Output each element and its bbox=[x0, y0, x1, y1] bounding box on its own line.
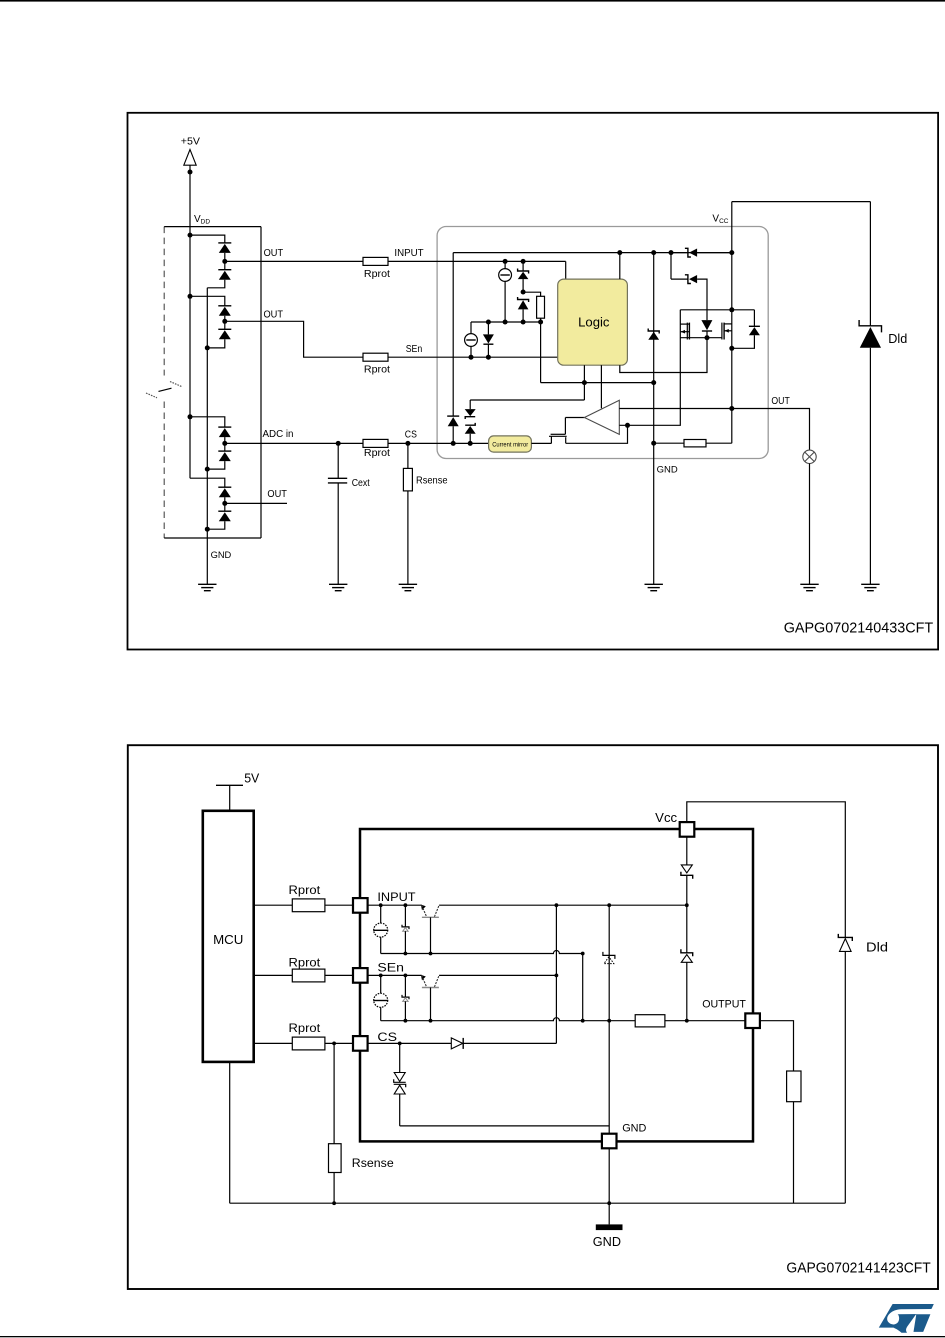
node input vcc clamp bbox=[685, 903, 689, 907]
node stack2 return bbox=[205, 345, 210, 350]
node gnd mid bbox=[651, 441, 656, 446]
figure 1 frame bbox=[128, 113, 939, 650]
wire 5V to MCU bbox=[229, 785, 231, 811]
node stack1 bbox=[188, 233, 193, 238]
zener z-sen bbox=[402, 975, 409, 1020]
svg-text:Rsense: Rsense bbox=[352, 1156, 394, 1170]
node rail zener branch bbox=[669, 250, 674, 255]
wire OUT4 stub bbox=[225, 502, 287, 504]
resistor Rprot row1 bbox=[363, 257, 388, 265]
page top rule bbox=[0, 0, 945, 2]
node input b bbox=[521, 259, 526, 264]
node D10 sen bbox=[486, 355, 491, 360]
svg-text:Cext: Cext bbox=[352, 478, 370, 489]
supply +5V arrow bbox=[184, 150, 196, 166]
zener ZR2 bbox=[671, 253, 707, 321]
MCU block fig2 bbox=[203, 811, 254, 1062]
ground symbol ic bbox=[645, 584, 663, 590]
svg-text:+5V: +5V bbox=[181, 136, 200, 147]
svg-text:Rprot: Rprot bbox=[364, 448, 390, 459]
svg-text:5V: 5V bbox=[244, 771, 260, 785]
wire CS into IC bbox=[388, 442, 489, 444]
input group bottom wire bbox=[471, 321, 541, 323]
wire to diode stack 3 bbox=[190, 417, 225, 427]
Vcc top wire bbox=[732, 201, 871, 203]
comparator A1 bbox=[584, 400, 619, 434]
svg-text:OUT: OUT bbox=[264, 309, 284, 320]
svg-text:GAPG0702140433CFT: GAPG0702140433CFT bbox=[784, 620, 934, 636]
svg-text:ADC in: ADC in bbox=[263, 429, 294, 440]
node Z1 bottom bbox=[521, 290, 526, 295]
wire OUTPUT external bbox=[760, 1021, 794, 1071]
tvs gnd wire bbox=[400, 1125, 610, 1127]
Vcc vertical bus bbox=[731, 202, 733, 444]
mosfet M1 bbox=[680, 323, 689, 340]
IC2 body bbox=[360, 829, 753, 1141]
node mid gnd bbox=[651, 380, 656, 385]
node stack4 return bbox=[205, 527, 210, 532]
current source I4 bbox=[373, 975, 388, 1020]
node stack2 bbox=[188, 294, 193, 299]
wire MCU to Rprot2 bbox=[255, 974, 292, 976]
node stack3 bbox=[188, 414, 193, 419]
resistor R5 bbox=[654, 440, 732, 447]
wire tvs drop bbox=[469, 400, 471, 409]
MCU block dashed left edge bbox=[163, 227, 165, 538]
pin square OUTPUT bbox=[745, 1013, 760, 1028]
node tvs cs bbox=[468, 441, 473, 446]
svg-text:OUT: OUT bbox=[267, 489, 287, 500]
node Cext junction bbox=[336, 441, 341, 446]
wire SEn into IC bbox=[388, 356, 558, 358]
SEn wire cont bbox=[439, 974, 556, 976]
svg-text:MCU: MCU bbox=[213, 932, 243, 947]
svg-text:CS: CS bbox=[377, 1030, 397, 1044]
diode D10 bbox=[483, 322, 494, 357]
Logic block bbox=[558, 279, 628, 365]
wire MCU to Rprot1 bbox=[255, 904, 292, 906]
svg-text:SEn: SEn bbox=[377, 960, 404, 974]
INPUT pin wire bbox=[367, 904, 422, 906]
node Rsense tap bbox=[332, 1042, 336, 1046]
svg-text:Logic: Logic bbox=[578, 315, 610, 330]
Vdd rail vertical bbox=[189, 227, 191, 479]
node r2b bbox=[429, 1019, 433, 1023]
wire logic out1 bbox=[583, 365, 585, 400]
node cs tvs bbox=[398, 1042, 402, 1046]
resistor Rprot row3 bbox=[363, 439, 388, 447]
node r2c bbox=[581, 1019, 585, 1023]
svg-text:Rprot: Rprot bbox=[289, 955, 321, 969]
OUT feedback wire bbox=[619, 409, 809, 451]
node se1 bbox=[379, 974, 383, 978]
node in3 bbox=[555, 903, 559, 907]
zener ZR1 bbox=[671, 248, 732, 257]
wire OUT1 to Rprot bbox=[225, 260, 363, 262]
node r2a bbox=[404, 1019, 408, 1023]
wire R4 branch down bbox=[540, 322, 542, 383]
svg-text:INPUT: INPUT bbox=[377, 890, 416, 904]
GND pin lower wire bbox=[608, 1148, 610, 1224]
pin square Vcc bbox=[680, 822, 695, 837]
left rail drop bbox=[452, 253, 454, 417]
svg-text:Dld: Dld bbox=[866, 940, 888, 955]
wire +5V to Vdd bbox=[189, 165, 191, 226]
wire R4 bottom bbox=[540, 318, 542, 322]
svg-text:Rprot: Rprot bbox=[289, 1021, 321, 1035]
node on +5V wire bbox=[188, 170, 193, 175]
figure 2 frame bbox=[128, 745, 938, 1289]
node stack3 return bbox=[205, 467, 210, 472]
diode D11 down bbox=[701, 320, 712, 338]
node OUT4 bbox=[222, 501, 227, 506]
diode D9 bbox=[447, 416, 459, 443]
zener clamp vcc-b bbox=[681, 905, 693, 1021]
node r1b bbox=[429, 952, 433, 956]
node rail gnd branch bbox=[651, 250, 656, 255]
page bottom rule bbox=[0, 1336, 945, 1337]
wire MCU to Rprot3 bbox=[255, 1042, 292, 1044]
current source I2 bbox=[465, 322, 478, 357]
resistor Rprot2-1 bbox=[292, 899, 325, 912]
INPUT wire cont bbox=[439, 904, 687, 906]
node out line bbox=[729, 406, 734, 411]
row1 bottom wire with hop bbox=[381, 951, 583, 954]
resistor Rload bbox=[787, 1071, 801, 1102]
current source I3 bbox=[373, 905, 388, 953]
pin square CS bbox=[353, 1036, 368, 1051]
svg-text:Rprot: Rprot bbox=[364, 365, 390, 376]
node drain vcc bbox=[729, 307, 734, 312]
resistor R4 bbox=[537, 296, 545, 318]
wire Rprot1 to pin bbox=[325, 904, 353, 906]
svg-text:Rprot: Rprot bbox=[289, 883, 321, 897]
node Rsense junction bbox=[405, 441, 410, 446]
node r2d bbox=[607, 1019, 611, 1023]
node comp in2 bbox=[625, 423, 630, 428]
ground return wire bbox=[206, 288, 208, 585]
ground symbol mcu bbox=[198, 584, 216, 590]
sense tie vertical bbox=[555, 905, 557, 1043]
svg-text:Rprot: Rprot bbox=[364, 269, 390, 280]
wire Rload down bbox=[793, 1102, 795, 1204]
node input a bbox=[503, 259, 508, 264]
svg-text:GND: GND bbox=[211, 550, 232, 560]
Vcc pin top wire bbox=[687, 802, 846, 938]
node source vcc bbox=[729, 346, 734, 351]
pin square INPUT bbox=[353, 898, 368, 913]
node bw3 bbox=[521, 320, 526, 325]
resistor Rsense fig1 bbox=[403, 443, 412, 584]
node bw2 bbox=[503, 320, 508, 325]
node in4 bbox=[607, 903, 611, 907]
wire mirror to fet bbox=[531, 442, 551, 444]
node OUT2 bbox=[222, 319, 227, 324]
zener z-gnd bbox=[603, 952, 615, 964]
svg-text:SEn: SEn bbox=[406, 344, 423, 355]
MCU block top edge bbox=[164, 226, 261, 228]
node bw1 bbox=[486, 320, 491, 325]
node rsense gnd bbox=[332, 1201, 336, 1205]
node r1c bbox=[581, 952, 585, 956]
MCU ground drop bbox=[229, 1062, 231, 1203]
node gnd bus bbox=[607, 1201, 611, 1205]
earth bar bbox=[596, 1224, 623, 1230]
node r1a bbox=[404, 952, 408, 956]
node D11 source bbox=[705, 335, 710, 340]
wire logic out3 bbox=[620, 338, 707, 373]
ground symbol Dld bbox=[861, 584, 879, 590]
mosfet M2 bbox=[722, 323, 732, 340]
drain rail bbox=[680, 309, 754, 311]
diode D5 bbox=[218, 427, 231, 451]
resistor Rprot row2 bbox=[363, 353, 388, 361]
node se2 bbox=[404, 974, 408, 978]
source rail bbox=[680, 337, 722, 339]
lamp load bbox=[803, 450, 816, 584]
svg-text:GND: GND bbox=[657, 465, 678, 475]
svg-text:GAPG0702141423CFT: GAPG0702141423CFT bbox=[786, 1260, 930, 1276]
diode D8 bbox=[207, 511, 231, 529]
diode D12 bbox=[732, 310, 760, 349]
transistor T1 bbox=[421, 905, 439, 954]
bottom ground bus bbox=[230, 1202, 846, 1204]
tvs clamp cs bbox=[394, 1043, 406, 1126]
resistor Rprot2-3 bbox=[292, 1037, 325, 1050]
wire rail to logic bbox=[619, 253, 621, 280]
IC U1 body bbox=[437, 227, 768, 459]
diode D7 bbox=[218, 487, 231, 511]
ground symbol Cext bbox=[329, 584, 347, 590]
wire Z1 to R4 bbox=[523, 292, 541, 296]
MCU block right edge bbox=[260, 227, 262, 538]
ST logo bbox=[879, 1304, 934, 1333]
row2 bottom wire with hop bbox=[381, 1018, 636, 1021]
node OUT1 bbox=[222, 259, 227, 264]
zener Z3 gnd branch bbox=[648, 253, 659, 585]
node I2 sen bbox=[469, 355, 474, 360]
break mark on dashed edge bbox=[146, 382, 182, 398]
internal gnd bus bbox=[608, 905, 610, 1134]
node D9 cs bbox=[451, 441, 456, 446]
node sen tie bbox=[555, 974, 559, 978]
resistor Rprot2-2 bbox=[292, 969, 325, 982]
diode D4 bbox=[207, 329, 231, 348]
resistor Rout bbox=[635, 1015, 665, 1027]
svg-text:Rsense: Rsense bbox=[416, 476, 448, 487]
wire to diode stack 1 bbox=[190, 235, 225, 243]
zener clamp vcc-a bbox=[681, 836, 693, 905]
wire input to logic bbox=[565, 261, 567, 279]
svg-text:OUT: OUT bbox=[264, 248, 284, 259]
wire to diode stack 4 bbox=[190, 478, 225, 487]
resistor Rsense fig2 bbox=[329, 1043, 342, 1203]
diode D3 bbox=[218, 306, 231, 330]
node in2 bbox=[404, 903, 408, 907]
svg-text:OUT: OUT bbox=[771, 396, 789, 407]
tie wire rows bbox=[582, 954, 584, 1021]
node ADC bbox=[222, 441, 227, 446]
diode D2 bbox=[207, 270, 231, 288]
ground symbol lamp bbox=[800, 584, 818, 590]
node rail logic bbox=[617, 250, 622, 255]
zener z-in bbox=[402, 905, 409, 953]
zener Z2 bbox=[518, 297, 529, 322]
zener Z1 bbox=[518, 261, 529, 292]
wire fet to comp2 bbox=[566, 425, 628, 443]
svg-text:GND: GND bbox=[593, 1234, 621, 1249]
CS pin wire bbox=[367, 1042, 452, 1044]
node in1 bbox=[379, 903, 383, 907]
node output clamp bbox=[685, 1019, 689, 1023]
svg-text:GND: GND bbox=[622, 1123, 646, 1135]
wire D13 to tie bbox=[463, 1042, 556, 1044]
comparator input2 wire bbox=[619, 310, 680, 426]
svg-text:OUTPUT: OUTPUT bbox=[702, 999, 746, 1011]
MCU block bottom edge bbox=[164, 537, 261, 539]
ground symbol Rsense bbox=[399, 584, 417, 590]
svg-text:CS: CS bbox=[405, 429, 417, 440]
svg-text:Current mirror: Current mirror bbox=[492, 442, 528, 448]
wire tvs top bbox=[470, 399, 584, 401]
capacitor Cext bbox=[328, 443, 347, 584]
pin square GND bbox=[602, 1134, 617, 1149]
diode D6 bbox=[207, 451, 231, 469]
wire logic out2 bbox=[600, 365, 602, 408]
mid horizontal wire bbox=[541, 382, 654, 384]
sense fet Q1 bbox=[549, 418, 567, 444]
supply 5V bar bbox=[216, 784, 243, 786]
comparator output wire bbox=[565, 417, 584, 419]
diode D1 bbox=[218, 243, 231, 270]
node rail vcc pin bbox=[729, 250, 734, 255]
wire OUT2 bbox=[225, 321, 363, 357]
internal Vcc rail bbox=[453, 252, 732, 254]
zener Dld fig2 bbox=[838, 934, 852, 1203]
SEn pin wire bbox=[367, 974, 422, 976]
wire INPUT into IC bbox=[388, 260, 566, 262]
wire Rprot2 to pin bbox=[325, 974, 353, 976]
wire to diode stack 2 bbox=[190, 296, 225, 306]
wire ADC to Rprot bbox=[225, 442, 363, 444]
svg-text:INPUT: INPUT bbox=[394, 248, 423, 259]
current source I1 bbox=[499, 261, 512, 322]
tvs diode pair bbox=[465, 409, 476, 443]
wire Rout to OUTPUT bbox=[665, 1020, 746, 1022]
wire Rprot3 to pin bbox=[325, 1042, 353, 1044]
zener Dld fig1 bbox=[859, 202, 881, 585]
node logic out1 bbox=[582, 380, 587, 385]
diode D13 bbox=[451, 1038, 463, 1049]
svg-text:Dld: Dld bbox=[888, 332, 907, 346]
pin square SEn bbox=[353, 968, 368, 983]
svg-text:Vcc: Vcc bbox=[655, 811, 677, 825]
transistor T2 bbox=[421, 975, 439, 1021]
current mirror block bbox=[489, 436, 532, 452]
node bw4 bbox=[538, 320, 543, 325]
